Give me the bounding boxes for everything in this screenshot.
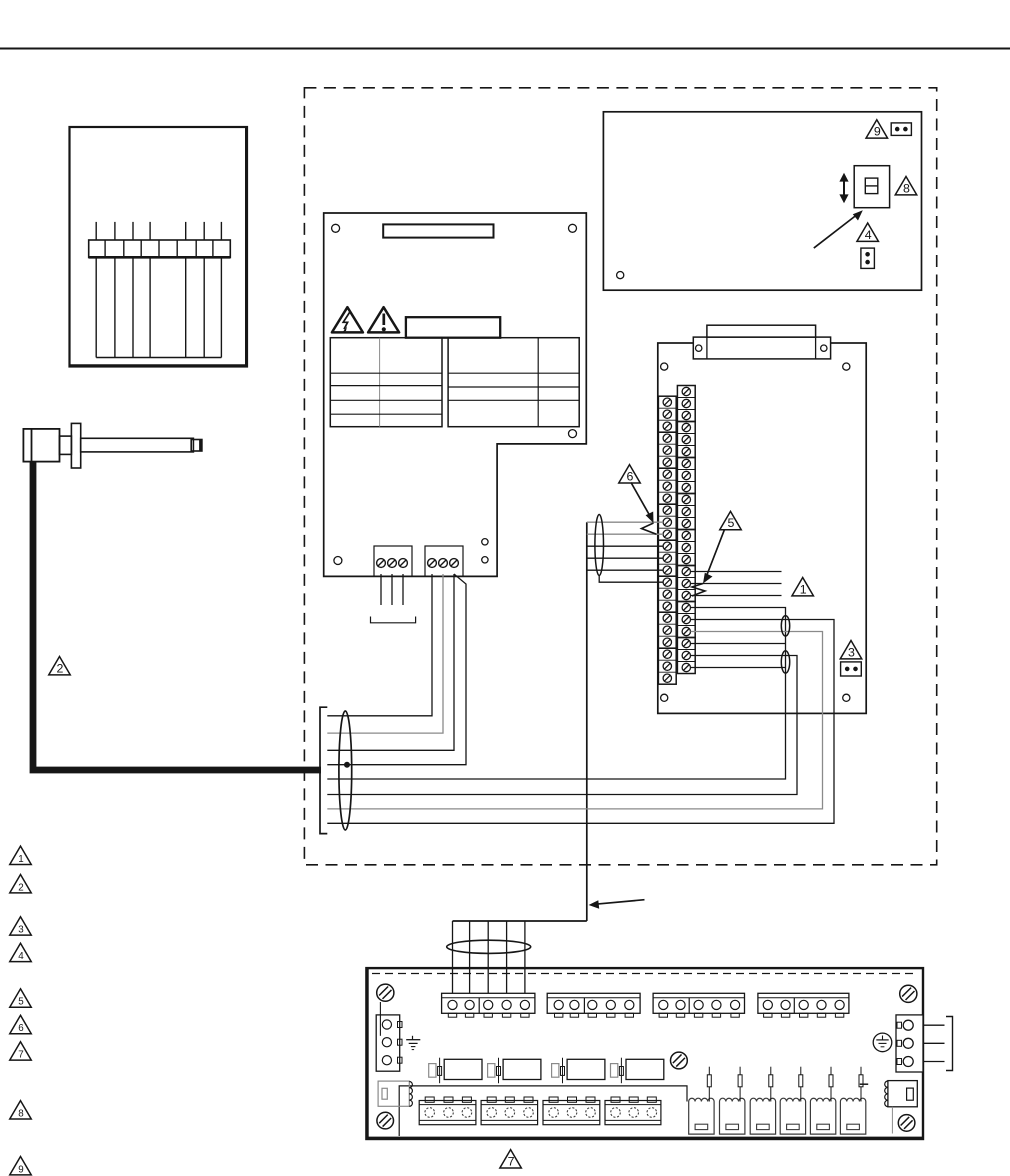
feed wire t15: [587, 569, 663, 571]
connector screws: [696, 345, 702, 351]
footnote triangle 9: [10, 1157, 32, 1175]
ratings table right: [448, 338, 579, 427]
lower panel inner dashed: [372, 973, 918, 975]
svg-text:2: 2: [18, 882, 23, 893]
wire r22 joins bus: [691, 643, 786, 645]
wire r21 run (gray): [327, 632, 822, 809]
junction dot: [345, 762, 350, 767]
footnote triangle 1: [10, 846, 32, 864]
callout triangle 8: [895, 177, 917, 195]
callout triangle 2: [49, 657, 71, 675]
wire r20 outer run: [327, 620, 834, 824]
footnote triangle 4: [10, 943, 32, 961]
TB2 wire a: [327, 574, 432, 716]
harness tie loop: [339, 711, 352, 830]
svg-text:2: 2: [57, 661, 64, 675]
bottom terminal block K7: [543, 1101, 600, 1125]
output component C1: [689, 1098, 714, 1134]
wire tie oval B: [781, 651, 789, 673]
circled earth symbol: [873, 1033, 892, 1052]
arrow from triangle 6: [631, 483, 650, 517]
svg-text:3: 3: [848, 645, 855, 659]
bottom terminal block K5: [419, 1101, 476, 1125]
corner screw TR: [900, 985, 917, 1002]
main cable vertical: [586, 522, 588, 921]
feed wire t13: [587, 545, 663, 547]
sensor neck: [60, 436, 72, 454]
cable elbow to lower panel: [453, 920, 587, 922]
left terminal block (3 pole): [376, 1015, 400, 1071]
open wire r16: [691, 571, 782, 573]
footnote triangle 3: [10, 917, 32, 935]
drop tie oval: [447, 940, 531, 953]
top terminal block B4: [758, 993, 849, 1013]
pointer arrow to jumper: [814, 214, 859, 249]
callout triangle 9: [866, 120, 888, 138]
svg-text:3: 3: [18, 925, 24, 936]
svg-text:9: 9: [874, 125, 881, 139]
junction box enclosure: [70, 127, 248, 367]
feed cable tie oval: [595, 515, 604, 576]
TB2 wire b (gray): [327, 574, 443, 733]
svg-text:1: 1: [18, 854, 23, 865]
relay K2: [503, 1059, 541, 1079]
middle screw: [671, 1052, 688, 1069]
top connector inner: [707, 325, 816, 337]
jumper header (2 dots) on board: [841, 662, 862, 676]
right block wires: [923, 1024, 945, 1026]
wire r23 run: [327, 656, 797, 795]
jumper header (2 dots vertical): [861, 248, 875, 268]
wire tie oval A: [781, 616, 789, 636]
svg-text:8: 8: [18, 1108, 24, 1119]
svg-text:4: 4: [865, 228, 872, 242]
footnote triangle 7: [10, 1042, 32, 1060]
board mounting holes: [332, 224, 340, 232]
small holes: [482, 539, 488, 545]
sensor head: [23, 429, 59, 462]
svg-text:6: 6: [627, 469, 634, 483]
svg-text:7: 7: [508, 1154, 515, 1168]
drop wires to lower terminals: [452, 921, 454, 1001]
top horizontal rule: [0, 48, 1010, 50]
footnote triangle 8: [10, 1101, 32, 1119]
corner screw BR: [898, 1115, 915, 1132]
feed wire t11 (gray): [587, 521, 663, 523]
output component C3: [750, 1098, 775, 1134]
TB2 wire d (diagonal tap): [327, 574, 466, 765]
lower panel outline: [366, 968, 923, 1139]
wires above terminal strip: [95, 222, 97, 240]
svg-text:9: 9: [18, 1164, 23, 1175]
control module board outline: [658, 343, 866, 713]
ratings table left: [330, 338, 442, 427]
output component C4: [780, 1098, 805, 1134]
callout triangle 5: [720, 511, 742, 529]
feed wire t12 (gray): [587, 533, 663, 535]
power module board outline: [324, 213, 587, 576]
open wire r18: [691, 595, 782, 597]
bottom terminal block K6: [481, 1101, 537, 1125]
sub-board outline: [399, 1086, 687, 1136]
callout triangle 4: [857, 223, 879, 241]
earth ground symbol: [412, 1036, 414, 1040]
junction box bottom rail: [96, 357, 221, 359]
bottom terminal block K8: [605, 1101, 661, 1125]
terminal block TB1: [374, 546, 412, 576]
TB1 bracket: [371, 617, 416, 623]
relay K1: [444, 1059, 482, 1079]
footnote triangle 5: [10, 989, 32, 1007]
svg-text:6: 6: [18, 1023, 24, 1034]
dashed panel enclosure: [304, 88, 936, 865]
warning triangle (high voltage): [332, 307, 363, 332]
sensor tube end cap: [191, 440, 202, 452]
board label plate: [383, 224, 493, 237]
jumper block: [854, 166, 889, 208]
top terminal block B2: [547, 993, 640, 1013]
output component C6: [840, 1098, 865, 1134]
footnote triangle 6: [10, 1015, 32, 1033]
warning triangle (caution): [368, 307, 399, 332]
svg-text:5: 5: [18, 997, 24, 1008]
wire r24 joins bus: [691, 667, 786, 669]
jumper header (2 dots horizontal): [891, 123, 911, 135]
move arrow (double head): [843, 181, 845, 196]
corner screw BL: [377, 1112, 394, 1129]
open wire r17: [691, 583, 782, 585]
sensor tube: [81, 438, 194, 452]
footnote triangle 2: [10, 875, 32, 893]
callout triangle 1: [792, 578, 814, 596]
relay K3: [567, 1059, 605, 1079]
svg-text:4: 4: [18, 951, 24, 962]
arrow from triangle 5: [707, 530, 725, 577]
gray trace near relay: [891, 1107, 893, 1134]
relay K4: [626, 1059, 664, 1079]
harness bracket: [320, 707, 327, 833]
callout triangle 3: [840, 641, 862, 659]
ratings header plate: [406, 317, 500, 338]
svg-text:7: 7: [18, 1050, 23, 1061]
top connector outer: [693, 337, 830, 359]
svg-text:5: 5: [728, 516, 735, 530]
output component C2: [720, 1098, 745, 1134]
right relay coil: [885, 1081, 888, 1087]
callout triangle 6: [619, 465, 641, 483]
wire screw to block: [379, 1002, 381, 1036]
sensor flange: [71, 423, 80, 468]
output component C5: [810, 1098, 835, 1134]
pointer arrow to cable: [596, 900, 645, 905]
terminal column left (24 terminals): [658, 396, 676, 432]
board mounting holes: [661, 363, 668, 370]
svg-text:8: 8: [903, 181, 910, 195]
jumper shunt: [865, 178, 878, 194]
corner screw TL: [377, 984, 394, 1001]
callout triangle 7: [500, 1150, 521, 1168]
right bracket: [946, 1017, 953, 1071]
TB1 wires down: [380, 574, 382, 605]
right terminal block (3 pole): [896, 1015, 923, 1072]
right relay block: [888, 1081, 917, 1107]
top terminal block B1: [442, 993, 535, 1013]
sensor cable (thick): [33, 462, 321, 770]
power entry coil: [409, 1082, 412, 1088]
C6 jumper bar: [860, 1083, 868, 1085]
feed wire t16 tail: [599, 576, 663, 583]
wires below terminal strip: [95, 257, 97, 357]
wire r19 down-left run: [327, 608, 785, 780]
TB2 wire c: [327, 574, 454, 750]
module mounting hole: [617, 272, 624, 279]
svg-text:1: 1: [800, 582, 807, 596]
terminal column right (24 terminals): [677, 386, 695, 422]
terminal strip TS1: [89, 240, 231, 258]
transformer module box: [603, 112, 921, 290]
feed wire t14: [587, 557, 663, 559]
power entry block (gray): [378, 1081, 409, 1106]
top terminal block B3: [653, 993, 744, 1013]
terminal block TB2: [425, 546, 463, 576]
